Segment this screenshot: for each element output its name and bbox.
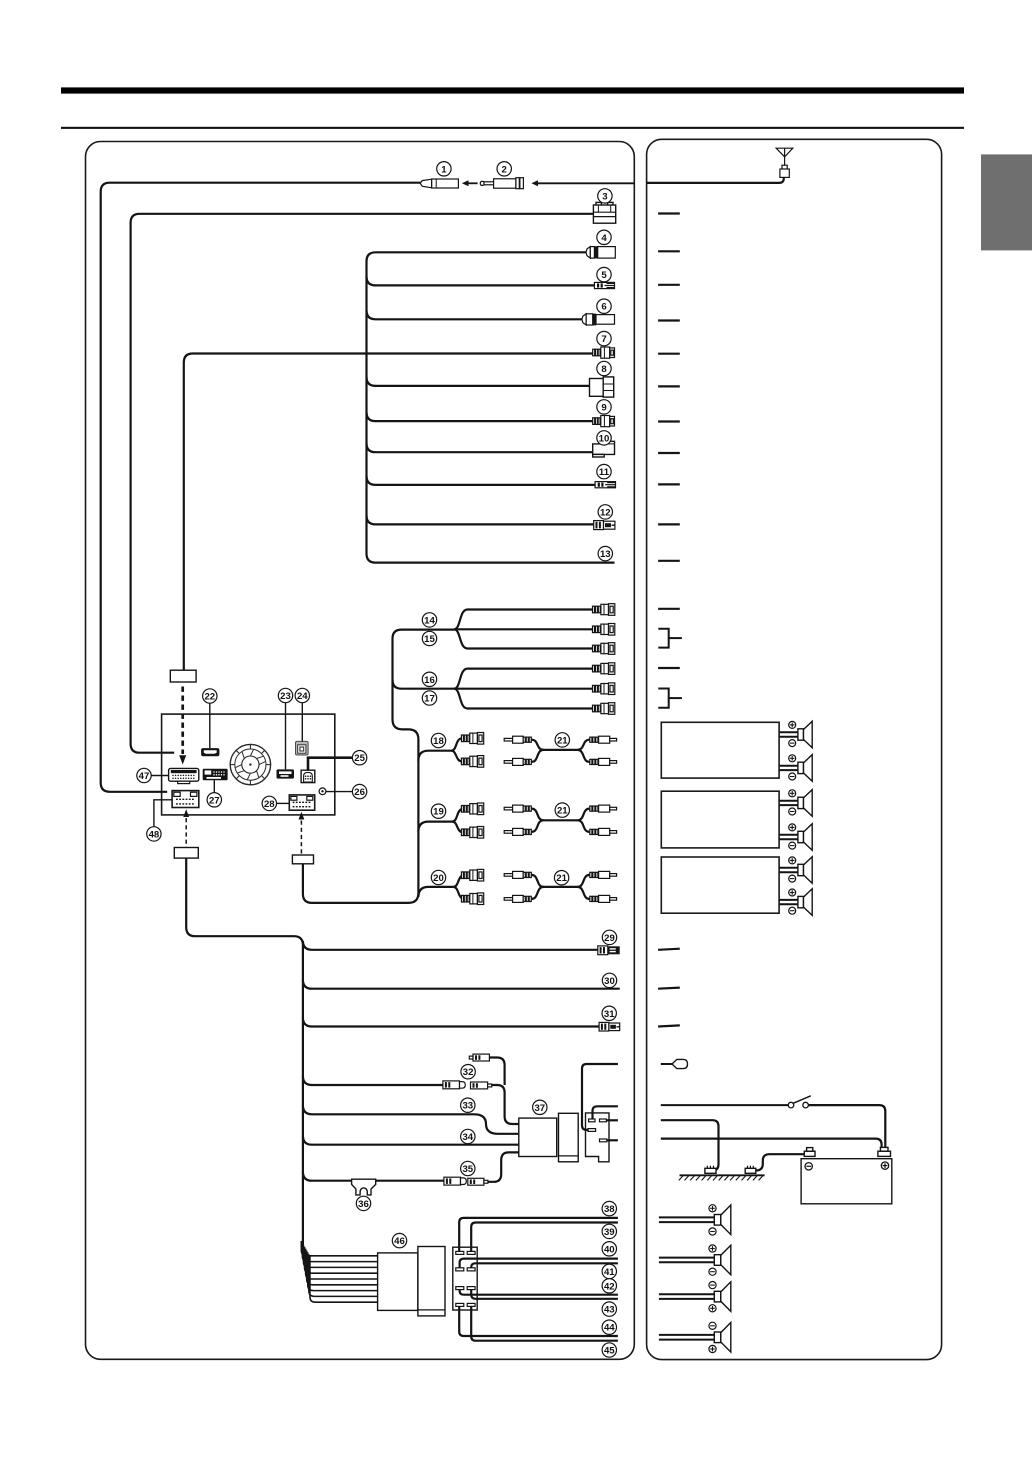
label 42 (602, 1279, 616, 1293)
main lead bus with wire 4 and wire 13 (367, 252, 615, 562)
svg-text:44: 44 (604, 1323, 615, 1334)
svg-text:2: 2 (502, 164, 507, 175)
connector 1 (antenna jack socket) (420, 179, 458, 188)
cable 21 right upper RCA plug (590, 871, 617, 878)
leader 27 (213, 780, 215, 792)
label 35 (461, 1161, 475, 1175)
label 26 (352, 784, 366, 798)
svg-text:12: 12 (600, 507, 611, 518)
speaker wire 39 (471, 1223, 618, 1252)
svg-text:15: 15 (424, 634, 435, 645)
amplifier box 3 (661, 857, 779, 913)
svg-text:5: 5 (601, 270, 607, 281)
svg-text:3: 3 (602, 191, 607, 202)
svg-text:19: 19 (433, 807, 444, 818)
svg-text:41: 41 (604, 1267, 615, 1278)
cable 21 right upper RCA plug (590, 736, 617, 743)
label 44 (602, 1320, 616, 1334)
label 8 (597, 361, 611, 375)
wire to antenna jack 1 (long loop to head unit) (101, 183, 432, 792)
speaker wire 40 (460, 1259, 618, 1268)
cable 21 left upper RCA plug (504, 805, 531, 812)
harness bus from 48 pigtail (186, 858, 303, 1245)
cable clamp 36 (352, 1179, 376, 1195)
wire 12 (367, 515, 594, 524)
label 14 (422, 613, 436, 627)
connector plug row 15 (593, 643, 615, 655)
harness bundle into connector 46 (301, 1241, 378, 1302)
connector 24 (mini USB socket) (296, 741, 309, 755)
connector 19 upper plug (461, 803, 483, 815)
leader 26 (326, 791, 352, 793)
fork 20 branches (453, 875, 464, 899)
label 11 (597, 464, 611, 478)
cable 21 left upper RCA plug (504, 736, 531, 743)
extension cable 21 (c) wires (532, 875, 590, 899)
label 40 (602, 1242, 616, 1256)
label 21 (554, 871, 568, 885)
label 32 (461, 1065, 475, 1079)
gray side tab (981, 154, 1032, 250)
label 7 (597, 331, 611, 345)
connector 20 upper plug (461, 869, 483, 881)
connector plug row 17 (593, 703, 615, 715)
label 20 (431, 870, 445, 884)
fork 19 branches (452, 809, 463, 833)
branch to fork 19 (418, 822, 452, 832)
label 29 (602, 930, 616, 944)
fuse holder 37 left shell (519, 1118, 557, 1156)
label 37 (533, 1100, 547, 1114)
leader 22 (209, 703, 211, 748)
svg-text:22: 22 (204, 692, 215, 703)
top rule thick (61, 87, 964, 93)
lead from 37 to fuse row (582, 1064, 618, 1130)
cable 21 left upper RCA plug (504, 871, 531, 878)
svg-text:38: 38 (604, 1204, 615, 1215)
connector 32 pair (male bullet) (443, 1081, 465, 1089)
pigtail rectangle above head unit (170, 670, 196, 682)
amplifier box 1 (661, 722, 779, 778)
amplifier speaker 2 (779, 755, 812, 782)
label 27 (207, 793, 221, 807)
pigtail rectangle below 28 (292, 855, 313, 864)
label 9 (597, 400, 611, 414)
wire 10 (367, 443, 593, 452)
amplifier box 2 (661, 791, 779, 848)
connector 23 (USB socket) (277, 769, 295, 778)
label 25 (352, 751, 366, 765)
svg-text:46: 46 (394, 1236, 405, 1247)
wire 6 (367, 310, 583, 319)
label 1 (437, 162, 451, 176)
connector 46 housing (378, 1247, 445, 1316)
wire 30 (bare end) (303, 980, 620, 989)
harness riser from 28 pigtail to RCA comb (303, 630, 455, 903)
label 34 (461, 1129, 475, 1143)
door speaker 2 (659, 1245, 731, 1275)
svg-text:34: 34 (462, 1132, 473, 1143)
connector plug row 14 (593, 624, 615, 636)
svg-text:21: 21 (557, 735, 568, 746)
label 18 (431, 733, 445, 747)
svg-text:13: 13 (600, 549, 611, 560)
fuse lead (661, 1059, 688, 1068)
speaker wire 41 (471, 1263, 618, 1268)
svg-text:48: 48 (149, 829, 160, 840)
leader 28 (276, 802, 289, 804)
label 13 (bare wire) (598, 546, 612, 560)
svg-text:28: 28 (264, 799, 275, 810)
connector 3 (antenna adapter) (593, 202, 615, 223)
speaker wire 45 (471, 1306, 618, 1340)
svg-text:9: 9 (601, 402, 606, 413)
label 22 (203, 689, 217, 703)
svg-text:6: 6 (601, 302, 606, 313)
connector 6 (582, 314, 615, 326)
connector 29 (spade terminal) (598, 946, 620, 955)
wire 32 (303, 1076, 443, 1085)
svg-text:21: 21 (556, 873, 567, 884)
label 30 (602, 973, 616, 987)
lead terminals (rows 3-13) (658, 214, 680, 561)
label 46 (392, 1233, 406, 1247)
label 38 (602, 1201, 616, 1215)
connector 18 lower plug (461, 756, 483, 768)
car antenna symbol (776, 148, 793, 177)
fork 18 branches (451, 738, 462, 761)
cable 21 left lower RCA plug (504, 758, 531, 765)
amplifier speaker 6 (779, 889, 812, 916)
label 48 (147, 827, 161, 841)
car battery (801, 1147, 892, 1203)
svg-text:21: 21 (557, 806, 568, 817)
label 36 (356, 1196, 370, 1210)
chassis ground bar (679, 1175, 765, 1180)
amplifier speaker 5 (779, 857, 812, 884)
screw 26 (319, 788, 326, 795)
connector 27 (203, 769, 228, 780)
connector 48 (172, 791, 199, 808)
cable 21 right lower RCA plug (590, 828, 617, 835)
right panel box (647, 139, 942, 1359)
wire 8 (367, 377, 590, 386)
label 15 (422, 631, 436, 645)
arrow between 1 and 2 (462, 180, 478, 186)
wire 11 (367, 476, 596, 485)
ground wire (661, 1120, 719, 1170)
connector 18 upper plug (461, 733, 483, 745)
speaker wire 44 (459, 1306, 618, 1336)
ISO connector block (453, 1247, 477, 1310)
connector 47 (169, 768, 199, 783)
svg-text:4: 4 (601, 233, 607, 244)
speaker wire 42 (460, 1290, 618, 1295)
svg-text:43: 43 (604, 1305, 615, 1316)
connector 8 (power plug housing) (590, 377, 614, 397)
label 6 (597, 299, 611, 313)
wire from 35 pair up to fuse block (488, 1152, 519, 1181)
connector 32 pair (female bullet) (471, 1082, 492, 1089)
extension cable 21 (a) wires (532, 740, 590, 762)
svg-text:17: 17 (424, 694, 435, 705)
branch to fork 18 (418, 751, 451, 761)
wire from 32 pair to fuse block (492, 1085, 519, 1124)
connector 5 (spade terminal) (594, 282, 614, 288)
wire 35 (303, 1172, 444, 1181)
wire 7 (to head unit rect) (184, 354, 593, 671)
battery direct wire (661, 1139, 882, 1148)
svg-text:47: 47 (139, 771, 150, 782)
extension cable 21 (b) wires (532, 809, 590, 832)
door speaker 3 (659, 1282, 731, 1312)
label 10 (597, 431, 611, 445)
ignition switch wire (661, 1096, 886, 1148)
svg-text:1: 1 (441, 164, 447, 175)
cable 21 right upper RCA plug (590, 805, 617, 812)
svg-text:11: 11 (599, 467, 610, 478)
amplifier speaker 4 (779, 824, 812, 851)
svg-text:8: 8 (601, 364, 607, 375)
svg-text:26: 26 (354, 787, 365, 798)
cable 21 right lower RCA plug (590, 895, 617, 902)
dashed link 28 to pigtail rect (299, 812, 305, 855)
head unit rear panel box (162, 714, 335, 815)
leader 48 (154, 800, 172, 827)
cable 21 left lower RCA plug (504, 828, 531, 835)
label 12 (598, 505, 612, 519)
branch to fork 20 (418, 887, 453, 897)
label 4 (597, 230, 611, 244)
connector 20 lower plug (461, 893, 483, 905)
label 39 (602, 1224, 616, 1238)
label 21 (555, 733, 569, 747)
label 5 (597, 267, 611, 281)
connector plug row 16 (593, 663, 615, 675)
svg-text:39: 39 (604, 1227, 615, 1238)
wire from spare bullet joining fuse feed (489, 1058, 504, 1086)
label 17 (422, 691, 436, 705)
pigtail rectangle below 48 (174, 848, 198, 859)
fuse holder 37 middle shell (559, 1113, 579, 1162)
dashed link 48 to pigtail rect (183, 809, 189, 847)
wire lug2 to battery minus (756, 1154, 805, 1170)
wire 31 (303, 1018, 599, 1027)
spare female bullet above 32 (469, 1054, 489, 1061)
svg-text:32: 32 (463, 1067, 474, 1078)
wire 5 (367, 276, 595, 285)
label 33 (461, 1098, 475, 1112)
svg-text:24: 24 (297, 691, 308, 702)
fork 16/17 three leads (454, 669, 594, 709)
svg-text:23: 23 (280, 691, 291, 702)
ground lug 1 (705, 1166, 716, 1174)
lead from 37 to ignition row (593, 1106, 618, 1119)
label 2 (497, 162, 511, 176)
leader 24 (301, 703, 303, 742)
top rule thin (61, 127, 964, 129)
connector 7 (DIN plug) (593, 347, 615, 358)
fuse holder 37 socket shell (586, 1113, 610, 1162)
svg-text:27: 27 (209, 795, 220, 806)
svg-text:18: 18 (433, 736, 444, 747)
wire 9 (367, 412, 593, 421)
antenna lead-in wire (647, 177, 784, 183)
connector plug row 16 (593, 683, 615, 695)
label 24 (295, 688, 309, 702)
door speaker 4 (659, 1322, 731, 1352)
connector 35 pair (female bullet) (468, 1178, 488, 1185)
svg-text:35: 35 (462, 1164, 473, 1175)
svg-text:25: 25 (354, 753, 365, 764)
connector 10 (housing) (593, 441, 615, 457)
lead from 37 pin row 2 right (607, 1139, 618, 1141)
svg-text:37: 37 (534, 1103, 545, 1114)
svg-text:40: 40 (604, 1244, 615, 1255)
connector 19 lower plug (461, 827, 483, 839)
fork 14/15 three leads (454, 610, 594, 649)
branch to 16/17 fork (393, 680, 455, 689)
cooling fan (230, 744, 270, 784)
connector 9 (DIN plug) (593, 416, 615, 427)
connector 11 (spade terminal) (595, 482, 615, 488)
leader 47 (151, 775, 168, 777)
amplifier speaker 3 (779, 790, 812, 817)
label 23 (278, 688, 292, 702)
svg-text:30: 30 (604, 976, 615, 987)
label 43 (602, 1302, 616, 1316)
terminal row 14 (658, 608, 680, 610)
speaker wire 43 (471, 1290, 618, 1299)
wire 29 (303, 941, 598, 950)
wire 33 (303, 1105, 519, 1134)
wire 34 (303, 1136, 519, 1145)
speaker wire 38 (459, 1218, 618, 1252)
leader 23 (285, 703, 287, 770)
leader 25 (308, 758, 352, 771)
connector 28 (289, 795, 314, 810)
arrow from antenna lead-in to 2 (531, 180, 634, 186)
ground lug 2 (745, 1166, 756, 1174)
label 21 (555, 803, 569, 817)
svg-text:20: 20 (433, 873, 444, 884)
connector 35 pair (male bullet) (444, 1177, 466, 1185)
svg-text:36: 36 (358, 1199, 369, 1210)
connector 25 (DIN socket) (301, 770, 315, 782)
svg-text:7: 7 (601, 334, 606, 345)
amplifier speaker 1 (779, 721, 812, 748)
svg-text:29: 29 (604, 933, 615, 944)
label 16 (422, 672, 436, 686)
cable 21 right lower RCA plug (590, 758, 617, 765)
cable 21 left lower RCA plug (504, 895, 531, 902)
svg-text:16: 16 (424, 675, 435, 686)
svg-text:14: 14 (424, 615, 435, 626)
connector 31 (female spade) (599, 1022, 620, 1031)
label 41 (602, 1264, 616, 1278)
dashed insert arrow into 47 (179, 687, 186, 765)
svg-text:31: 31 (604, 1009, 615, 1020)
label 47 (137, 768, 151, 782)
terminal row 16 (658, 667, 680, 669)
connector 4 (586, 246, 615, 258)
joined terminal bracket 14/15 (658, 629, 682, 648)
svg-text:42: 42 (604, 1281, 615, 1292)
left panel box (86, 142, 635, 1360)
wire to antenna adapter 3 (loop to head unit) (131, 214, 594, 753)
lead terminals (rows 29-31) (658, 949, 680, 1027)
connector plug row 14 (593, 604, 615, 616)
connector 22 (HDMI socket) (201, 748, 219, 756)
label 3 (598, 189, 612, 203)
label 31 (602, 1006, 616, 1020)
connector 12 (female spade) (594, 521, 615, 530)
connector 2 (antenna plug) (480, 178, 523, 189)
svg-text:33: 33 (462, 1101, 473, 1112)
label 45 (602, 1343, 616, 1357)
door speaker 1 (659, 1205, 731, 1235)
svg-text:10: 10 (599, 433, 610, 444)
label 28 (262, 796, 276, 810)
svg-text:45: 45 (604, 1346, 615, 1357)
joined terminal bracket 16/17 (658, 689, 682, 708)
lead from 37 pin row 1 right (606, 1119, 618, 1121)
label 19 (431, 804, 445, 818)
